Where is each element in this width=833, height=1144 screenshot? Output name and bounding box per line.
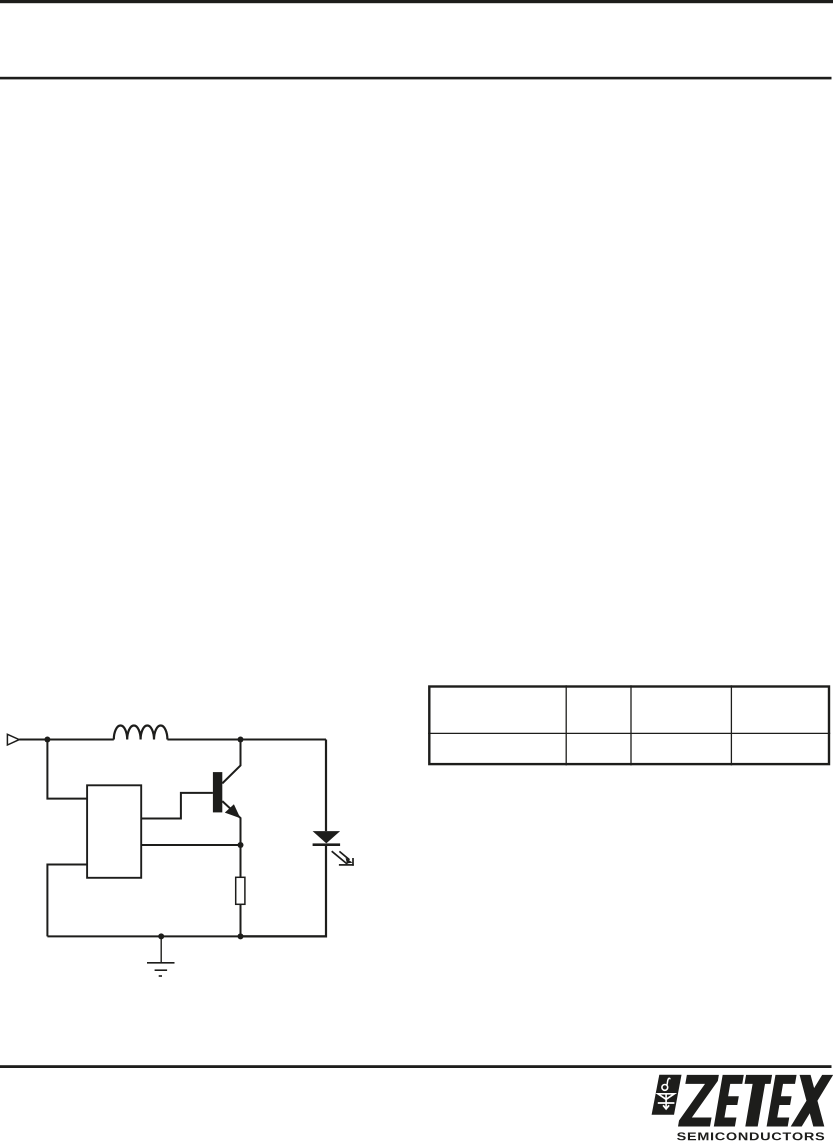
table column divider 3: [730, 685, 732, 765]
IC box U1: [87, 785, 141, 878]
LED D1 emission arrow 2: [339, 851, 352, 863]
SEMICONDUCTORS text: [677, 1132, 824, 1140]
table column divider 1: [565, 685, 567, 765]
wire resistor to bottom rail: [240, 904, 242, 936]
wire box to base: [141, 793, 213, 819]
transistor Q1 collector: [222, 740, 240, 784]
input terminal: [7, 734, 19, 745]
right rail upper: [325, 740, 327, 832]
wire box to emitter node: [141, 844, 240, 846]
node ground junction: [158, 933, 164, 939]
table column divider 2: [630, 685, 632, 765]
LED D1 emission arrow 1: [332, 851, 354, 866]
Zetex logo diode box: [652, 1075, 682, 1115]
transistor Q1 base bar: [213, 772, 222, 812]
letter X: [791, 1075, 833, 1127]
ZETEX wordmark: [678, 1075, 833, 1127]
letter E2: [767, 1075, 797, 1127]
node resistor junction: [238, 933, 244, 939]
letter Z: [678, 1075, 719, 1127]
ground bar 3: [159, 975, 162, 977]
LED D1 cathode bar: [313, 843, 341, 846]
bottom rail: [47, 935, 326, 937]
table row divider: [428, 732, 830, 734]
ground bar 1: [147, 962, 175, 964]
right rail lower: [241, 846, 327, 936]
wire inductor to top-right corner: [167, 739, 326, 741]
wire input to inductor: [19, 739, 114, 741]
circuit schematic: [7, 726, 353, 977]
transistor Q1 emitter: [222, 801, 240, 845]
letter T: [737, 1075, 772, 1127]
node input junction: [44, 737, 50, 743]
ground stem: [160, 936, 162, 962]
ground bar 2: [155, 969, 168, 971]
header rule: [0, 77, 832, 80]
footer rule: [0, 1065, 832, 1068]
wire left rail upper: [47, 740, 87, 799]
top title bar: [0, 0, 833, 3]
node emitter junction: [238, 842, 244, 848]
node collector junction: [238, 737, 244, 743]
wire left rail lower: [47, 865, 87, 937]
resistor R1: [236, 877, 245, 904]
inductor L1: [114, 726, 168, 740]
Zetex logo diode mark: [658, 1078, 675, 1109]
transistor Q1 emitter arrow: [225, 804, 241, 818]
letter E1: [714, 1075, 744, 1127]
wire emitter to resistor: [240, 845, 242, 877]
table outline: [428, 685, 830, 765]
LED D1 triangle: [313, 831, 341, 843]
